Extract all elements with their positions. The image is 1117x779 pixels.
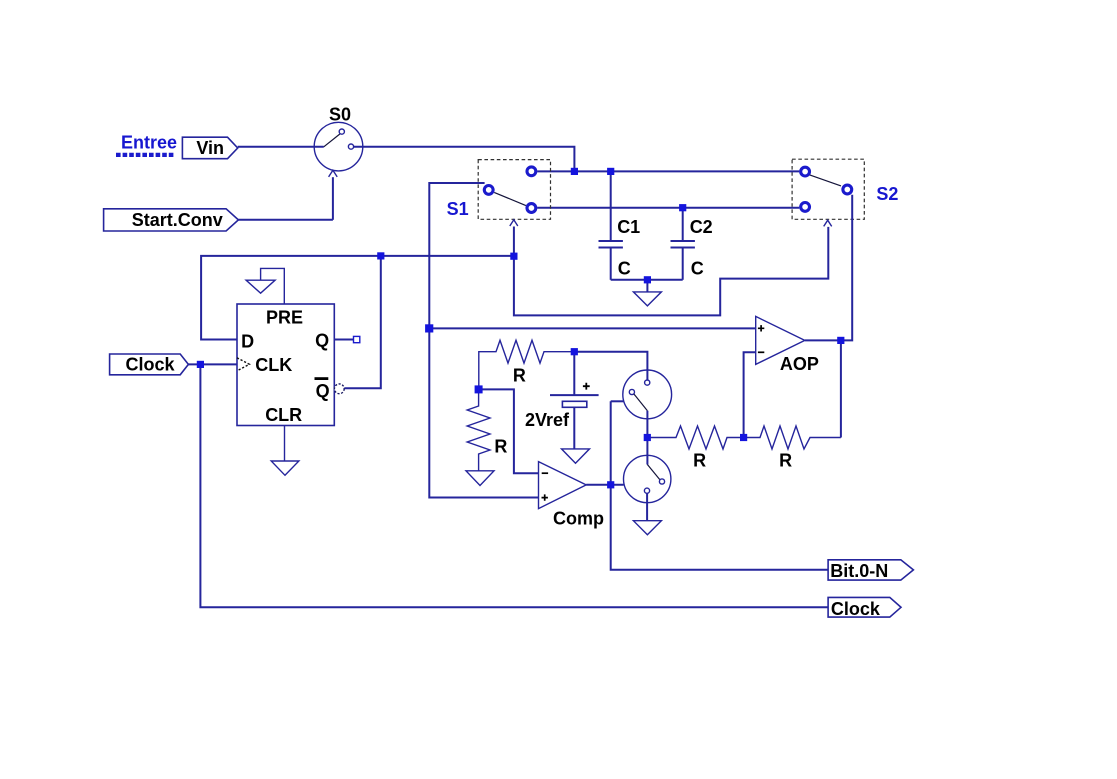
wire Start.Conv to S0 control [238, 219, 333, 221]
junction AOP output [837, 337, 844, 344]
current source top [623, 370, 672, 419]
ground under bottom source [633, 521, 661, 535]
battery 2Vref [525, 352, 599, 449]
svg-text:C2: C2 [690, 217, 713, 237]
resistor R (between sources and feedback node) [647, 426, 743, 471]
control arrow of S2 [824, 220, 832, 226]
junction C2 top [679, 204, 686, 211]
svg-text:Comp: Comp [553, 509, 604, 529]
svg-text:Q: Q [315, 331, 329, 351]
wire S1 left terminal to left net [429, 183, 538, 498]
svg-text:S1: S1 [447, 199, 469, 219]
junction Qbar/D net [377, 252, 384, 259]
svg-text:CLR: CLR [265, 405, 302, 425]
resistor R (left vertical) [467, 389, 507, 470]
svg-text:Q: Q [316, 381, 330, 401]
svg-text:R: R [494, 436, 507, 456]
svg-text:Vin: Vin [196, 138, 224, 158]
wire between current sources [646, 411, 648, 465]
wire bottom row S1 to S2 [537, 207, 799, 209]
junction Comp output [607, 481, 614, 488]
svg-text:S2: S2 [876, 184, 898, 204]
control arrow of S1 [510, 220, 518, 226]
svg-text:C: C [618, 259, 631, 279]
svg-text:Start.Conv: Start.Conv [132, 210, 223, 230]
wire divider junction to Comp minus [479, 389, 539, 473]
Q pin open square [334, 336, 360, 342]
wire R row up to AOP output junction [840, 340, 842, 437]
wire Vin to S0 [238, 146, 324, 148]
wire 2Vref junction to top current source [574, 352, 647, 380]
Qbar bubble and feedback wire [334, 256, 380, 394]
svg-text:CLK: CLK [255, 355, 292, 375]
svg-text:AOP: AOP [780, 354, 819, 374]
net flag Vin [182, 137, 237, 159]
junction S0 row [571, 168, 578, 175]
wire Comp output to sources node [586, 484, 623, 486]
wire AOP plus input net [429, 327, 755, 329]
wire S0 output to row junction [354, 147, 575, 172]
junction feedback node [740, 434, 747, 441]
svg-text:D: D [241, 331, 254, 351]
wire Clock to CLK [188, 363, 237, 365]
junction battery top [571, 348, 578, 355]
ground under capacitors [633, 280, 661, 306]
svg-text:R: R [513, 366, 526, 386]
svg-text:S0: S0 [329, 104, 351, 124]
wire Clock down to bottom Clock flag [200, 364, 828, 607]
junction Clock [197, 361, 204, 368]
switch S1 [447, 160, 551, 220]
wire control net S1/S2 [514, 227, 828, 316]
resistor R (top, to 2Vref) [479, 340, 575, 389]
svg-text:Clock: Clock [831, 599, 881, 619]
junction left net / AOP plus [425, 324, 433, 332]
svg-text:Clock: Clock [125, 355, 175, 375]
svg-text:R: R [779, 451, 792, 471]
net flag Clock (bottom) [828, 597, 901, 619]
capacitor C1 [599, 171, 641, 279]
D flip-flop [237, 304, 334, 426]
wire bottom source to ground [646, 493, 648, 520]
net flag Start.Conv [104, 209, 239, 231]
switch S2 [792, 159, 898, 219]
wire AOP minus feedback [744, 352, 756, 437]
junction C1 top [607, 168, 614, 175]
junction sources mid [644, 434, 651, 441]
wire cap bottoms [611, 279, 683, 281]
svg-text:PRE: PRE [266, 307, 303, 327]
comparator Comp [539, 462, 605, 529]
ground under battery [562, 449, 590, 463]
svg-text:C1: C1 [617, 217, 640, 237]
wire node to top source edge [611, 400, 624, 402]
wire D net (Qbar to D and switch controls) [201, 256, 514, 340]
ground under left R [466, 471, 494, 486]
wire top row S1 to S2 [537, 170, 799, 172]
net flag Bit.0-N [828, 560, 913, 581]
wire AOP output to S2 [805, 195, 852, 341]
junction divider [475, 385, 483, 393]
junction cap ground [644, 276, 651, 283]
current source bottom [624, 455, 671, 502]
resistor R (feedback to AOP output) [744, 426, 841, 471]
svg-text:Entree: Entree [121, 132, 177, 152]
net flag Clock (left) [110, 354, 189, 375]
CLR ground [271, 426, 299, 476]
control arrow of S0 [332, 177, 334, 220]
switch S0 [314, 104, 363, 170]
svg-text:C: C [691, 259, 704, 279]
op-amp AOP [756, 316, 819, 374]
net label Entree [116, 132, 177, 155]
capacitor C2 [671, 208, 713, 280]
svg-text:2Vref: 2Vref [525, 410, 570, 430]
wire sources node vertical (to Bit.0-N) [611, 401, 829, 570]
svg-text:Bit.0-N: Bit.0-N [830, 561, 888, 581]
junction control net [510, 253, 517, 260]
svg-text:R: R [693, 451, 706, 471]
PRE symbol (preset tie) [246, 268, 284, 304]
